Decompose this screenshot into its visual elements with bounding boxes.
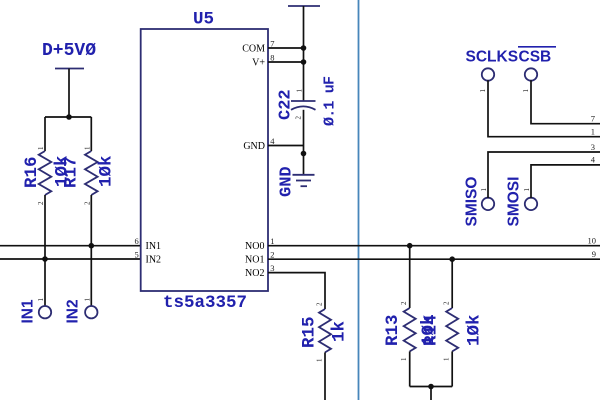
svg-text:1: 1 (479, 89, 487, 93)
wire (531, 165, 600, 198)
svg-text:1: 1 (443, 357, 451, 361)
svg-text:1k: 1k (330, 321, 350, 342)
svg-text:IN2: IN2 (65, 299, 82, 323)
svg-text:U5: U5 (193, 10, 214, 30)
svg-text:1: 1 (270, 236, 274, 246)
svg-text:1: 1 (523, 188, 531, 192)
pin 8 V+ (252, 53, 303, 69)
wire (68, 69, 70, 118)
wire (324, 352, 326, 400)
svg-text:1: 1 (316, 358, 324, 362)
resistor R17 (62, 146, 117, 205)
svg-text:2: 2 (270, 250, 274, 260)
wire (488, 152, 600, 198)
svg-text:3: 3 (591, 142, 595, 152)
svg-text:8: 8 (270, 53, 274, 63)
node junction (66, 114, 72, 120)
svg-text:7: 7 (270, 39, 274, 49)
svg-text:9: 9 (592, 249, 596, 259)
svg-text:IN1: IN1 (20, 299, 37, 324)
svg-text:SCLKS: SCLKS (466, 49, 519, 66)
node junction (301, 45, 307, 51)
node junction (301, 151, 307, 157)
resistor R13 (383, 301, 439, 361)
node junction (301, 59, 307, 65)
svg-text:2: 2 (443, 301, 451, 305)
svg-text:1: 1 (83, 146, 91, 150)
wire (44, 195, 46, 306)
wire (409, 246, 411, 308)
svg-text:R13: R13 (383, 314, 403, 346)
svg-text:1Øk: 1Øk (97, 155, 117, 187)
wire (531, 80, 600, 123)
wire net NO2 (268, 273, 325, 309)
wire (303, 6, 305, 101)
connector CSB (522, 68, 537, 92)
wire (90, 117, 92, 151)
svg-text:IN2: IN2 (146, 254, 162, 265)
svg-text:R17: R17 (62, 156, 82, 188)
node junction (42, 256, 48, 262)
svg-text:Ø.1 uF: Ø.1 uF (322, 76, 339, 126)
svg-text:6: 6 (134, 236, 138, 246)
svg-text:1Øk: 1Øk (465, 314, 485, 346)
wire net IN1 (0, 245, 141, 247)
node junction (407, 243, 413, 249)
svg-text:SMOSI: SMOSI (506, 177, 523, 227)
pin 3 NO2 (245, 263, 275, 279)
svg-text:10: 10 (588, 236, 597, 246)
connector SCLKS (479, 68, 494, 92)
pin 4 GND (243, 136, 303, 152)
sheet boundary line (358, 0, 360, 400)
svg-text:SMISO: SMISO (464, 177, 481, 227)
svg-text:1: 1 (83, 298, 91, 302)
svg-text:COM: COM (242, 43, 265, 54)
capacitor C22 (277, 76, 339, 126)
wire (90, 195, 92, 306)
wire (430, 387, 432, 400)
svg-text:1: 1 (522, 89, 530, 93)
svg-text:IN1: IN1 (146, 241, 162, 252)
wire (45, 116, 91, 118)
svg-text:1: 1 (480, 188, 488, 192)
svg-text:1: 1 (296, 89, 304, 93)
svg-text:3: 3 (270, 263, 274, 273)
svg-text:1: 1 (591, 127, 595, 137)
op-amp U5 ts5a3357 body (141, 10, 268, 314)
svg-text:NO1: NO1 (245, 254, 264, 265)
svg-text:5: 5 (134, 250, 138, 260)
svg-text:2: 2 (295, 116, 303, 120)
wire (410, 386, 453, 388)
connector IN2 (65, 298, 98, 324)
svg-text:1: 1 (37, 298, 45, 302)
resistor R15 (300, 302, 350, 362)
wire (451, 351, 453, 386)
wire (44, 117, 46, 151)
svg-text:1: 1 (37, 146, 45, 150)
svg-text:GND: GND (278, 166, 297, 197)
svg-text:2: 2 (316, 302, 324, 306)
pin 6 IN1 (134, 236, 161, 252)
svg-text:1: 1 (400, 357, 408, 361)
svg-text:ts5a3357: ts5a3357 (163, 293, 247, 313)
wire net NO0 (268, 245, 600, 247)
svg-text:NO0: NO0 (245, 241, 264, 252)
power symbol top (288, 5, 320, 7)
resistor R14 (422, 301, 485, 361)
svg-text:7: 7 (591, 114, 595, 124)
pin 1 NO0 (245, 236, 275, 252)
svg-text:R15: R15 (300, 316, 320, 348)
connector SMOSI (506, 177, 538, 227)
net label CSB with overline (518, 47, 556, 66)
pin 2 NO1 (245, 250, 275, 266)
connector IN1 (20, 298, 52, 324)
svg-text:C22: C22 (277, 89, 296, 120)
wire (409, 351, 411, 386)
wire (488, 80, 600, 136)
wire (303, 110, 305, 175)
svg-text:GND: GND (243, 141, 265, 152)
node junction (89, 243, 95, 249)
svg-text:CSB: CSB (519, 49, 552, 66)
node junction (449, 256, 455, 262)
pin 5 IN2 (134, 250, 161, 266)
svg-text:2: 2 (37, 201, 45, 205)
svg-text:R14: R14 (422, 314, 442, 346)
svg-text:2: 2 (83, 201, 91, 205)
svg-text:D+5VØ: D+5VØ (42, 41, 96, 61)
pin 7 COM (242, 39, 303, 55)
svg-text:4: 4 (270, 136, 275, 146)
connector SMISO (464, 177, 495, 227)
svg-text:2: 2 (400, 301, 408, 305)
svg-text:R16: R16 (22, 156, 42, 188)
ground (278, 166, 315, 197)
svg-text:V+: V+ (252, 57, 265, 68)
node junction (428, 384, 434, 390)
svg-text:NO2: NO2 (245, 268, 264, 279)
power symbol D+5V0 (42, 41, 96, 69)
wire net IN2 (0, 258, 141, 260)
wire (451, 259, 453, 308)
resistor R16 (22, 146, 73, 205)
wire net NO1 (268, 258, 600, 260)
